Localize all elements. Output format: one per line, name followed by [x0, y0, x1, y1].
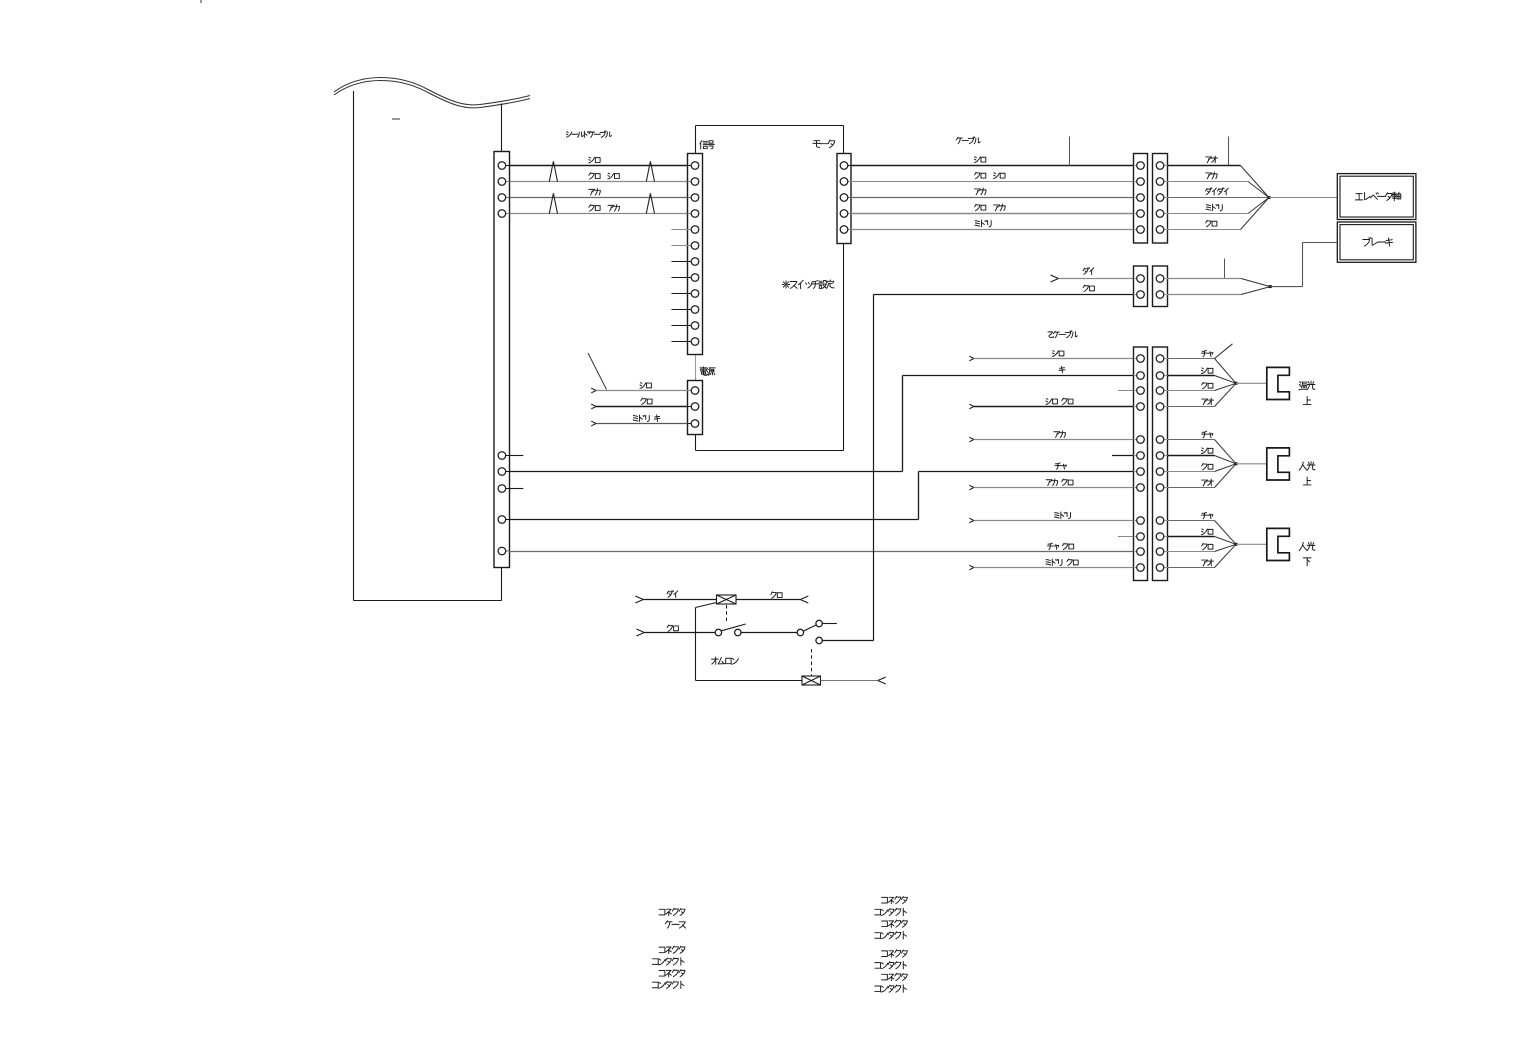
connector J4 pin 2	[1156, 291, 1164, 299]
stub wire 信号 pin 7	[672, 261, 688, 263]
connector 電源 pin 1	[691, 387, 699, 395]
connector J5 pin 8	[1137, 484, 1145, 492]
connector 信号 pin 8	[691, 274, 699, 282]
wire 乙ケーブル row12 ミドリ クロ	[969, 559, 1133, 570]
stub wire from P1 pin 7	[509, 488, 523, 490]
connector 電源 pin 3	[691, 420, 699, 428]
photo sensor 入光上 icon	[1267, 448, 1290, 480]
box エレベータ軸	[1337, 174, 1416, 220]
wire 乙ケーブル row5 アカ	[969, 431, 1133, 442]
wire 乙ケーブル row3 (nc)	[1118, 390, 1134, 392]
wire sensor group2 チャ	[1168, 431, 1237, 463]
note ケース (left column)	[665, 921, 685, 928]
wire from relay K2 right	[821, 677, 886, 684]
label モータ	[813, 140, 835, 148]
connector J2 housing	[1153, 154, 1168, 244]
wire cable アカ	[1168, 172, 1270, 197]
note コネクタ (left column)	[659, 970, 685, 977]
connector J2 pin 2	[1156, 178, 1164, 186]
wire sensor group3 シロ	[1168, 529, 1237, 544]
connector 信号 pin 7	[691, 258, 699, 266]
connector 信号 pin 9	[691, 290, 699, 298]
wire brake pair lower to bundle	[1168, 287, 1271, 295]
connector J6 housing	[1153, 347, 1168, 581]
twisted-pair marks rows 3-4	[549, 193, 654, 213]
label 入光上	[1299, 462, 1315, 485]
wire cable ミドリ	[1168, 198, 1270, 214]
connector P1 pin 2	[498, 178, 506, 186]
mechanical link K1 to SW1 (dashed)	[726, 605, 728, 623]
connector J6 pin 10	[1156, 533, 1164, 541]
wire 電源 ミドリ キ	[591, 415, 687, 426]
label キ (row2)	[1059, 366, 1065, 373]
connector J5 pin 10	[1137, 533, 1145, 541]
shield tick 1 on motor cable	[1069, 137, 1071, 166]
connector J5 pin 9	[1137, 517, 1145, 525]
note コネクタ (right column)	[882, 973, 908, 980]
connector P1 housing	[494, 152, 510, 568]
wire cable ダイダイ	[1168, 188, 1270, 198]
connector J5 pin 3	[1137, 387, 1145, 395]
switch SW1 contacts	[715, 624, 746, 636]
wire motor-cable ミドリ	[851, 220, 1134, 229]
connector モータ pin 5	[840, 226, 848, 234]
connector J5 pin 7	[1137, 468, 1145, 476]
connector J5 pin 12	[1137, 564, 1145, 572]
shield tick on brake pair	[1224, 259, 1226, 279]
small dash mark inside left unit	[392, 118, 400, 120]
wire motor-cable アカ	[851, 188, 1134, 197]
connector J4 housing	[1153, 266, 1168, 307]
bundle node to エレベータ軸	[1268, 196, 1338, 199]
connector 信号 housing	[688, 154, 703, 355]
connector J6 pin 6	[1156, 452, 1164, 460]
wire sensor group3 チャ	[1168, 512, 1237, 544]
wire motor-cable シロ	[851, 157, 1134, 166]
wire 乙ケーブル row9 ミドリ	[969, 512, 1133, 523]
connector J3 housing	[1134, 266, 1148, 307]
connector J6 pin 2	[1156, 372, 1164, 380]
bundle node group1	[1235, 382, 1267, 385]
photo sensor 遮光上 icon	[1267, 367, 1290, 399]
connector 電源 housing	[688, 381, 703, 435]
wire sensor group1 チャ	[1168, 344, 1237, 384]
connector J6 pin 1	[1156, 355, 1164, 363]
connector J6 pin 9	[1156, 517, 1164, 525]
connector J1 pin 4	[1137, 210, 1145, 218]
wire SW2 lower contact to brake クロ	[823, 295, 874, 641]
wire motor-cable クロ シロ	[851, 172, 1134, 181]
label シールドケーブル	[566, 131, 611, 138]
left unit enclosure (open-top box)	[354, 91, 502, 601]
wire sensor group3 アオ	[1168, 544, 1237, 567]
stub wire 信号 pin 6	[672, 245, 688, 247]
connector J6 pin 8	[1156, 484, 1164, 492]
connector モータ pin 2	[840, 178, 848, 186]
connector P1 pin 9	[498, 547, 506, 555]
note コンタクト (right column)	[875, 908, 907, 915]
connector モータ pin 4	[840, 210, 848, 218]
wire SW1 to SW2	[741, 632, 797, 634]
bundle node group2	[1235, 462, 1267, 465]
connector P1 pin 7	[498, 485, 506, 493]
label チャ (row7)	[1055, 463, 1066, 469]
connector J6 pin 7	[1156, 468, 1164, 476]
wire sensor group2 アオ	[1168, 464, 1237, 488]
connector J2 pin 1	[1156, 162, 1164, 170]
note コネクタ (right column)	[882, 950, 908, 957]
connector J3 pin 1	[1137, 275, 1145, 283]
note コネクタ (left column)	[659, 908, 685, 915]
connector J1 pin 5	[1137, 226, 1145, 234]
relay coil K1 (crossed box)	[717, 595, 737, 604]
label チャ クロ (row11)	[1047, 543, 1073, 549]
brake bundle node and wire to ブレーキ	[1269, 243, 1338, 289]
note コンタクト (right column)	[875, 932, 907, 939]
connector J2 pin 3	[1156, 194, 1164, 202]
label 入光下	[1299, 542, 1315, 566]
wire 乙ケーブル row8 アカ クロ	[969, 479, 1133, 490]
connector モータ housing	[837, 154, 851, 244]
connector J5 pin 2	[1137, 372, 1145, 380]
stub wire 信号 pin 5	[672, 229, 688, 231]
label 遮光上	[1299, 381, 1315, 404]
connector 信号 pin 3	[691, 194, 699, 202]
label 乙ケーブル	[1048, 331, 1077, 338]
wire チャ route (P1 pin8 to J5 row7)	[509, 472, 1133, 520]
label オムロン	[711, 657, 738, 664]
stub wire 信号 pin 9	[672, 293, 688, 295]
wire sensor group3 クロ	[1168, 543, 1237, 551]
connector J1 pin 2	[1137, 178, 1145, 186]
pin link wires P1	[502, 166, 510, 552]
wire 乙ケーブル row6 (nc)	[1112, 455, 1134, 457]
wire 乙ケーブル row1 シロ	[969, 351, 1133, 361]
connector J5 pin 6	[1137, 452, 1145, 460]
connector P1 pin 4	[498, 210, 506, 218]
connector J5 housing	[1134, 347, 1148, 581]
connector J1 housing	[1134, 154, 1148, 244]
connector J5 pin 4	[1137, 403, 1145, 411]
pin link wires 電源	[688, 391, 696, 424]
note コネクタ (right column)	[882, 920, 908, 927]
stub wire 信号 pin 12	[672, 341, 688, 343]
wire チャクロ route (P1 pin9 to J5 row11)	[509, 551, 1133, 553]
label ケーブル	[956, 137, 980, 144]
connector J6 pin 3	[1156, 387, 1164, 395]
wire 乙ケーブル row10 (nc)	[1118, 536, 1134, 538]
stub wire 信号 pin 10	[672, 309, 688, 311]
wire from relay K1 to lower branch	[696, 603, 803, 681]
wire 電源 シロ	[591, 383, 687, 393]
note コンタクト (left column)	[652, 958, 684, 965]
connector 信号 pin 6	[691, 242, 699, 250]
wire shield-cable クロ シロ	[509, 173, 687, 182]
connector P1 pin 6	[498, 468, 506, 476]
wire cable クロ	[1168, 198, 1270, 230]
note コネクタ (right column)	[882, 896, 908, 903]
twisted-pair marks rows 1-2	[549, 161, 654, 181]
wire キ route (P1 pin6 to J5 row2)	[509, 376, 1133, 472]
connector 信号 pin 5	[691, 226, 699, 234]
pin link wires 信号	[688, 166, 696, 342]
wire ダイ to relay K1	[635, 591, 717, 603]
pin link wires J3-J4	[1134, 279, 1168, 295]
connector J5 pin 5	[1137, 436, 1145, 444]
connector J5 pin 11	[1137, 548, 1145, 556]
connector 電源 pin 2	[691, 403, 699, 411]
connector J6 pin 5	[1156, 436, 1164, 444]
connector J1 pin 3	[1137, 194, 1145, 202]
wire shield-cable クロ アカ	[509, 205, 687, 214]
note コンタクト (right column)	[875, 985, 907, 992]
wire sensor group2 クロ	[1168, 463, 1237, 471]
label ※スイッチ設定	[782, 280, 834, 289]
connector J3 pin 2	[1137, 291, 1145, 299]
stub from SW2 upper contact	[823, 623, 837, 625]
connector J5 pin 1	[1137, 355, 1145, 363]
connector J4 pin 1	[1156, 275, 1164, 283]
mechanical link SW2 to relay K2 (dashed)	[811, 649, 813, 676]
stray tick mark top-left	[200, 0, 202, 3]
connector 信号 pin 4	[691, 210, 699, 218]
connector P1 pin 8	[498, 516, 506, 524]
photo sensor 入光下 icon	[1267, 528, 1290, 560]
wire クロ from relay K1	[736, 592, 808, 603]
pin link wires J5-J6	[1134, 359, 1168, 568]
wire brake ダイ	[1051, 268, 1134, 282]
wire sensor group1 アオ	[1168, 383, 1237, 406]
wire クロ to switch SW1	[636, 625, 715, 636]
note コンタクト (right column)	[875, 962, 907, 969]
connector 信号 pin 10	[691, 306, 699, 314]
connector J6 pin 11	[1156, 548, 1164, 556]
wire brake pair upper to bundle	[1168, 279, 1271, 287]
connector J6 pin 4	[1156, 403, 1164, 411]
wire 電源 クロ	[591, 398, 687, 409]
leader line near 電源	[588, 353, 607, 390]
box ブレーキ	[1337, 222, 1416, 262]
wire brake クロ (from switch)	[874, 285, 1134, 294]
pin link wires J1-J2	[1134, 166, 1168, 230]
connector 信号 pin 12	[691, 338, 699, 346]
connector モータ pin 3	[840, 194, 848, 202]
connector P1 pin 5	[498, 452, 506, 460]
label 電源	[700, 367, 715, 376]
stub wire from P1 pin 5	[509, 455, 523, 457]
controller box outline	[696, 126, 844, 451]
stub wire 信号 pin 8	[672, 277, 688, 279]
wire sensor group1 シロ	[1168, 368, 1237, 383]
connector 信号 pin 1	[691, 162, 699, 170]
connector J1 pin 1	[1137, 162, 1145, 170]
wire motor-cable クロ アカ	[851, 204, 1134, 213]
wire sensor group2 シロ	[1168, 448, 1237, 464]
wire 乙ケーブル row4 シロ クロ	[969, 398, 1133, 409]
connector P1 pin 3	[498, 194, 506, 202]
wire sensor group1 クロ	[1168, 382, 1237, 390]
shield tick 2 on motor cable	[1228, 137, 1230, 166]
pin link wires モータ	[844, 166, 851, 230]
connector P1 pin 1	[498, 162, 506, 170]
stub wire 信号 pin 11	[672, 325, 688, 327]
wire from cable break down to connector P1	[501, 104, 503, 152]
connector 信号 pin 11	[691, 322, 699, 330]
connector モータ pin 1	[840, 162, 848, 170]
connector J2 pin 4	[1156, 210, 1164, 218]
connector 信号 pin 2	[691, 178, 699, 186]
wire cable アオ	[1168, 156, 1270, 197]
note コンタクト (left column)	[652, 981, 684, 988]
cable break (wavy double line) at top of left unit	[334, 77, 530, 107]
wire shield-cable シロ	[509, 157, 687, 165]
bundle node group3	[1235, 543, 1267, 546]
connector J2 pin 5	[1156, 226, 1164, 234]
changeover switch SW2	[797, 620, 822, 643]
wire shield-cable アカ	[509, 189, 687, 198]
connector J6 pin 12	[1156, 564, 1164, 572]
label 信号	[700, 141, 714, 149]
relay coil K2 (crossed box)	[802, 676, 821, 685]
note コネクタ (left column)	[659, 946, 685, 953]
